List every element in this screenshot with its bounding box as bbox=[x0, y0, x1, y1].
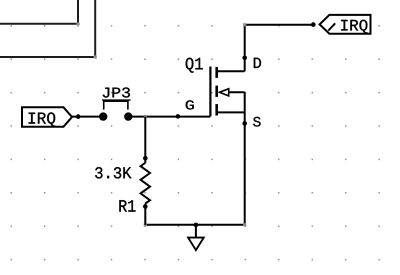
resistor R1 bbox=[141, 163, 150, 204]
wire bbox=[144, 223, 247, 226]
transistor Q1 source lead bbox=[217, 111, 245, 113]
wire bbox=[0, 0, 97, 59]
node junction gray bbox=[144, 115, 147, 118]
wire bbox=[72, 116, 100, 118]
node D junction bbox=[242, 56, 247, 61]
transistor Q1 channel bbox=[215, 67, 218, 116]
node R1 bottom junction bbox=[143, 204, 148, 209]
wire bbox=[144, 117, 146, 163]
label Q1 bbox=[186, 58, 203, 73]
net label /IRQ bbox=[320, 15, 371, 34]
jumper JP3 pin 1 bbox=[100, 114, 106, 120]
jumper JP3 pin 2 bbox=[125, 114, 131, 120]
node G junction bbox=[176, 114, 181, 119]
wire bbox=[0, 0, 80, 25]
wire bbox=[244, 92, 246, 225]
pin label S bbox=[253, 117, 260, 127]
ground bbox=[188, 225, 204, 250]
transistor Q1 body lead bbox=[229, 91, 245, 93]
transistor Q1 gate bbox=[209, 67, 211, 117]
wire bbox=[132, 116, 211, 118]
transistor Q1 drain lead bbox=[217, 70, 245, 72]
node S junction bbox=[242, 121, 247, 126]
node IRQ junction bbox=[76, 114, 81, 119]
node R1 top junction bbox=[143, 156, 148, 161]
node ground junction bbox=[194, 223, 199, 228]
wire bbox=[144, 204, 146, 225]
pin label G bbox=[186, 100, 194, 109]
pin label D bbox=[254, 58, 261, 68]
jumper JP3 bbox=[102, 87, 131, 109]
transistor Q1 body arrow bbox=[220, 89, 229, 96]
wire bbox=[243, 23, 313, 71]
node /IRQ junction bbox=[311, 22, 316, 27]
label 3.3K bbox=[95, 167, 131, 178]
label R1 bbox=[119, 200, 135, 211]
net label IRQ bbox=[22, 107, 72, 126]
